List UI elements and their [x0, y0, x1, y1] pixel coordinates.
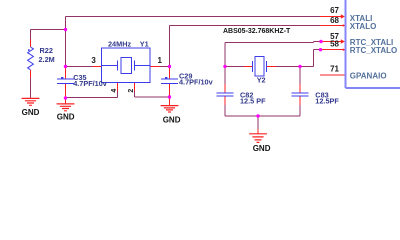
GND3 stub [169, 97, 171, 106]
Y1 pin1 stub [150, 66, 160, 68]
svg-text:Y2: Y2 [257, 75, 266, 84]
wire RTC_XTALI net: pin57 horizontal and drop to C82 [225, 42, 321, 85]
pin 57 line [321, 41, 343, 43]
svg-text:68: 68 [330, 16, 339, 25]
resistor R22 [28, 47, 34, 70]
svg-text:67: 67 [330, 6, 339, 15]
GND4 stub [257, 129, 259, 134]
wire bottom left: pin4 of Y1 to GND junction [66, 91, 118, 98]
crystal Y2 symbol [253, 57, 267, 77]
node junction C35/GND2 [64, 96, 67, 99]
C82 top stub [224, 84, 226, 93]
C83 bottom stub [299, 97, 301, 106]
pin 67 line [320, 16, 343, 18]
svg-text:XTALO: XTALO [350, 22, 377, 31]
capacitor C29 plates [161, 79, 178, 83]
Y1 pin3 stub [93, 66, 102, 68]
C29 polarity tick [165, 77, 167, 79]
crystal Y1 box [102, 48, 151, 83]
svg-text:4.7PF/10v: 4.7PF/10v [179, 77, 214, 86]
svg-text:3: 3 [91, 56, 96, 65]
pin numbers [91, 6, 339, 93]
Y2 left pin stub [244, 66, 253, 68]
svg-text:ABS05-32.768KHZ-T: ABS05-32.768KHZ-T [223, 28, 291, 35]
ground GND1 [22, 98, 40, 105]
svg-text:4: 4 [111, 89, 118, 93]
R22 bottom pin stub [30, 70, 32, 78]
pin lines (red) [31, 17, 347, 134]
net names [350, 14, 397, 80]
wire pin3 of Y1 [66, 66, 93, 68]
R22 pin1 dot [28, 49, 30, 51]
svg-text:58: 58 [330, 40, 339, 49]
wire top XTALI net horizontal [66, 16, 321, 18]
capacitor C35 plates [57, 79, 74, 83]
R22 top pin stub [30, 39, 32, 47]
crystal Y1 symbol [102, 58, 151, 74]
ground GND4 [249, 134, 267, 143]
ground GND2 [57, 104, 75, 111]
Y1 pin2 stub [134, 83, 136, 92]
svg-text:12.5 PF: 12.5 PF [240, 96, 266, 105]
svg-text:GPANAIO: GPANAIO [350, 71, 387, 80]
node junction bottom GND4 [256, 114, 259, 117]
wire XTALO net: corner at x=169.5 to pin 68 [170, 26, 321, 67]
pin 57 arrowhead [341, 39, 345, 44]
wire Y2 right to riser x=313 and over to pin 58 [276, 50, 321, 67]
GND2 stub [65, 98, 67, 104]
svg-text:GND: GND [163, 115, 181, 124]
pin 67 arrowhead [341, 14, 345, 19]
pin 68 end blob [343, 24, 346, 27]
svg-text:71: 71 [330, 65, 339, 74]
node junction C29/GND3 [168, 95, 171, 98]
pin 58 end blob [343, 48, 346, 51]
node junction Y2 left [223, 65, 226, 68]
node junction pin 58 [319, 48, 322, 51]
wire R22 vertical lower to GND [30, 78, 32, 98]
wire bottom right: pin2 of Y1 to C29/GND junction [135, 91, 170, 97]
svg-text:24MHz: 24MHz [108, 40, 131, 49]
svg-text:Y1: Y1 [140, 40, 149, 49]
wire bottom of C82/C83 to GND [225, 105, 300, 129]
wire vertical x=65.5 from top corner down to C35 [65, 17, 67, 67]
C35 top stub [65, 67, 67, 79]
junction dots [64, 28, 323, 118]
wire Y2 left [225, 66, 244, 68]
capacitor C82 plates [217, 93, 234, 96]
svg-text:R22: R22 [40, 46, 53, 55]
labels [39, 40, 340, 106]
GND texts [22, 108, 271, 153]
C35 bottom stub [65, 84, 67, 98]
svg-text:GND: GND [22, 108, 40, 117]
svg-text:GND: GND [57, 112, 75, 121]
capacitor C83 plates [292, 93, 309, 96]
svg-text:4.7PF/10v: 4.7PF/10v [73, 79, 108, 88]
C82 bottom stub [224, 97, 226, 106]
node junction pin1/C29 [168, 65, 171, 68]
wire pin1 of Y1 [160, 66, 170, 68]
pin 71 line [320, 74, 346, 76]
pin 58 line [321, 49, 346, 51]
svg-text:1: 1 [158, 56, 163, 65]
wire R22 vertical upper [30, 30, 32, 40]
wire R22 top horizontal [31, 29, 66, 31]
pin 68 line [320, 25, 345, 27]
C83 top stub [299, 84, 301, 93]
Y1 pin4 stub [117, 83, 119, 92]
node junction pin3/C35 [64, 65, 67, 68]
C29 bottom stub [169, 84, 171, 97]
node junction R22/top [64, 28, 67, 31]
svg-text:RTC_XTALO: RTC_XTALO [350, 46, 397, 55]
svg-text:2: 2 [128, 89, 135, 93]
svg-text:GND: GND [253, 144, 271, 153]
ground GND3 [161, 106, 179, 112]
C35 polarity tick [61, 77, 63, 79]
node junction pin 57 [319, 40, 322, 43]
wire C83 tap from RTC_XTALO net [299, 67, 301, 85]
connector part edge (blue bracket) [346, 0, 400, 88]
Y2 right pin stub [267, 66, 277, 68]
C29 top stub [169, 67, 171, 79]
node junction C83 tap [298, 65, 301, 68]
svg-text:12.5PF: 12.5PF [315, 96, 339, 105]
svg-text:2.2M: 2.2M [39, 55, 55, 64]
